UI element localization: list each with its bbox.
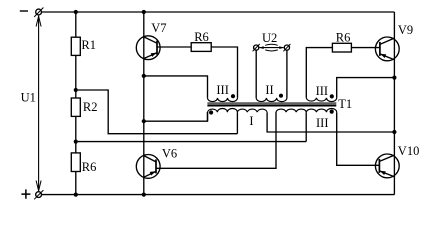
wire V7 emitter to winding III-1 left lead: [144, 76, 208, 98]
svg-text:III: III: [316, 84, 329, 98]
svg-text:V7: V7: [151, 21, 166, 35]
U2 double arrow line: [260, 47, 284, 49]
wire winding I right lead down then right to collector rail: [267, 112, 394, 132]
wire U2 right terminal to winding II right lead: [286, 50, 288, 98]
svg-text:III: III: [316, 116, 329, 130]
node junction R1/R2: [74, 88, 78, 92]
transistor V7 collector diagonal: [144, 37, 157, 43]
U1 arrowhead up: [36, 16, 41, 26]
svg-text:T1: T1: [338, 97, 352, 111]
transistor V6 base bar: [155, 159, 157, 173]
transistor V7 base bar: [156, 41, 158, 55]
transistor V6 emitter arrow (PNP): [150, 171, 156, 175]
svg-text:R1: R1: [81, 38, 96, 52]
transistor V7 emitter arrow (PNP): [151, 53, 157, 57]
winding III bottom (secondary, tapped): [276, 108, 337, 112]
polarity dot winding I: [209, 110, 213, 114]
transistor V6 circle: [136, 155, 160, 179]
resistor R6 (top right): [332, 43, 351, 52]
wire winding I center tap down: [236, 112, 238, 134]
transistor V7 circle: [136, 36, 160, 60]
wire junction to winding I left lead: [144, 112, 208, 121]
U2 arrowhead left: [259, 46, 264, 49]
U2 upper arc: [265, 44, 278, 45]
transistor V9 circle: [375, 37, 399, 61]
terminal U2 left: [254, 45, 259, 50]
polarity dot winding III bottom: [330, 110, 334, 114]
terminal (negative) top-left: [36, 9, 42, 15]
transistor V9 emitter arrow (PNP): [380, 54, 386, 58]
transformer T1 core lower line: [207, 104, 336, 106]
node junction top rail at V7 collector: [142, 10, 146, 14]
transformer T1 core upper line: [207, 102, 336, 104]
resistor R1: [71, 37, 80, 55]
winding II (top middle): [256, 98, 287, 102]
wire right rail (V9/V10 collector-emitter line): [393, 12, 395, 195]
U2 arrowhead right: [279, 46, 284, 49]
wire R6 to winding III-1 right lead: [211, 47, 237, 98]
wire U2 left terminal to winding II left lead: [255, 50, 257, 98]
winding III-1 (top left): [208, 98, 238, 102]
wire R6 to V9 base: [351, 47, 380, 49]
transistor V6 collector diagonal: [144, 156, 156, 162]
terminal slash top-left: [34, 8, 43, 17]
wire V6 base to winding III bottom-left lead: [156, 112, 276, 168]
U1 voltage arrow line: [38, 16, 40, 191]
svg-text:V9: V9: [398, 23, 413, 37]
terminal slash U2 right: [283, 44, 290, 51]
transistor V9 collector diagonal: [380, 38, 395, 44]
wire from R2/R6 junction to winding III bottom tap: [78, 141, 306, 143]
terminal slash U2 left: [253, 44, 260, 51]
svg-text:V10: V10: [398, 144, 420, 158]
resistor R6 (left column): [71, 153, 80, 172]
node junction bottom rail at resistor chain: [74, 193, 78, 197]
wire R6 bottom lead: [75, 172, 77, 195]
svg-text:R6: R6: [82, 160, 97, 174]
node junction R2/R6: [74, 140, 78, 144]
node junction V7 emitter: [142, 74, 146, 78]
wire V7 base to resistor R6: [157, 46, 191, 48]
transistor V10 circle: [375, 154, 399, 178]
wire resistor chain top lead: [75, 12, 77, 37]
resistor R6 (top left): [191, 43, 211, 52]
svg-text:U1: U1: [21, 90, 36, 104]
polarity dot winding II: [279, 94, 283, 98]
svg-text:R6: R6: [194, 30, 209, 44]
wire top rail: [41, 11, 394, 13]
node junction right rail at winding I wire: [392, 130, 396, 134]
wire R2 to R6: [75, 116, 77, 152]
transistor V9 emitter diagonal: [380, 54, 395, 60]
winding III-2 (top right): [306, 98, 336, 102]
svg-text:R2: R2: [83, 100, 98, 114]
resistor R2: [71, 98, 80, 116]
node junction bottom rail at V6 emitter: [142, 193, 146, 197]
U2 lower arc: [265, 50, 278, 51]
svg-text:R6: R6: [336, 31, 351, 45]
wire R1 to R2: [75, 55, 77, 98]
terminal U2 right: [284, 45, 289, 50]
polarity dot winding III-1: [231, 94, 235, 98]
transistor V10 emitter diagonal: [379, 171, 394, 177]
U1 arrowhead down: [36, 181, 41, 191]
transistor V10 base bar: [378, 159, 380, 173]
plus sign of source U1: [21, 189, 30, 198]
polarity dot winding III-2: [330, 94, 334, 98]
node junction top rail at resistor chain: [74, 10, 78, 14]
wire winding III-2 right lead up to V9 emitter junction: [337, 78, 395, 98]
node junction V6 collector / winding I left: [142, 119, 146, 123]
node junction V9 emitter: [392, 76, 396, 80]
wire winding III bottom right lead down to V10 base: [337, 112, 380, 165]
transistor V10 emitter arrow (PNP): [380, 171, 386, 175]
svg-text:V6: V6: [162, 147, 177, 161]
wire from R1/R2 junction to winding I center tap: [78, 90, 238, 134]
transistor V6 emitter diagonal: [144, 171, 156, 177]
wire winding III-2 left lead up to R6: [306, 48, 332, 98]
wire winding I left lead down: [207, 112, 209, 121]
svg-text:I: I: [249, 114, 253, 128]
transistor V7 emitter diagonal: [144, 53, 157, 59]
transistor V9 base bar: [379, 42, 381, 56]
wire winding III bottom tap down: [305, 112, 307, 141]
transistor V10 collector diagonal: [379, 155, 394, 161]
wire bottom rail: [41, 194, 394, 196]
minus sign of source U1: [20, 10, 28, 12]
svg-text:III: III: [216, 83, 229, 97]
winding I (bottom primary, center tapped): [208, 108, 268, 112]
wire V7/V6 vertical collector-emitter line: [143, 12, 145, 195]
terminal slash bottom-left: [34, 190, 43, 199]
svg-text:U2: U2: [262, 31, 277, 45]
terminal (positive) bottom-left: [36, 192, 42, 198]
svg-text:II: II: [265, 83, 273, 97]
